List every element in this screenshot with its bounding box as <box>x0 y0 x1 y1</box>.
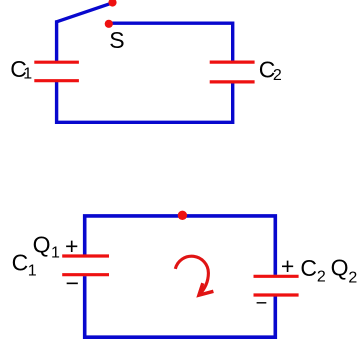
svg-text:Q: Q <box>331 255 349 281</box>
svg-text:−: − <box>66 270 79 296</box>
svg-text:−: − <box>256 292 268 314</box>
svg-text:Q: Q <box>33 232 51 258</box>
svg-text:1: 1 <box>51 245 60 262</box>
svg-text:1: 1 <box>28 263 37 280</box>
svg-text:1: 1 <box>23 66 32 83</box>
svg-text:C: C <box>300 255 317 281</box>
svg-text:S: S <box>109 27 124 53</box>
svg-text:2: 2 <box>317 269 326 286</box>
svg-text:+: + <box>281 253 294 279</box>
svg-text:C: C <box>12 249 29 275</box>
svg-text:2: 2 <box>348 270 357 287</box>
svg-text:2: 2 <box>273 67 282 84</box>
svg-text:+: + <box>65 233 78 259</box>
